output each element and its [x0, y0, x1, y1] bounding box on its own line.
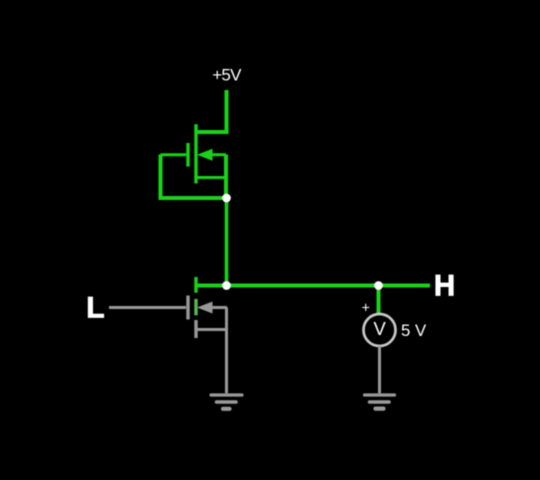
Q1 gate bar [186, 143, 189, 167]
wire Q1 gate loop [161, 155, 227, 199]
Q1 source lead [197, 176, 226, 179]
ground G2 [365, 395, 395, 409]
svg-text:+: + [361, 301, 369, 317]
svg-text:H: H [434, 269, 455, 302]
wire L input [109, 306, 186, 309]
Q1 gate lead [161, 153, 187, 156]
Q2 channel dash [194, 299, 197, 315]
svg-text:+5V: +5V [212, 65, 242, 84]
voltage source V1 body [364, 314, 396, 346]
ground G1 [211, 395, 242, 409]
wire V1 to ground [378, 346, 381, 393]
wire +5V to Q1 drain [197, 90, 227, 132]
node junction J2 [222, 281, 231, 290]
Q2 source lead [197, 328, 226, 331]
Q2 bulk arrow [197, 302, 213, 314]
wire J3 to voltage source [377, 286, 381, 314]
Q2 gate bar [186, 296, 189, 320]
node junction J3 [374, 281, 383, 290]
svg-text:5 V: 5 V [401, 321, 427, 340]
wire Q1 source down [224, 155, 228, 199]
Q2 drain contact [194, 277, 197, 293]
wire output net horizontal [197, 284, 430, 288]
svg-text:V: V [374, 318, 387, 339]
Q2 bulk line [212, 306, 228, 309]
transistor Q1 (diode-connected NMOS load) [161, 124, 227, 183]
svg-text:L: L [86, 291, 104, 324]
wire Q2 source to ground [225, 308, 228, 394]
Q1 bulk arrow [197, 149, 213, 161]
Q1 bulk line [212, 153, 227, 156]
wire J1 to output node [225, 198, 229, 286]
node junction J1 [222, 194, 231, 203]
Q1 channel bar (depletion) [194, 124, 197, 183]
Q2 source contact [194, 320, 197, 338]
